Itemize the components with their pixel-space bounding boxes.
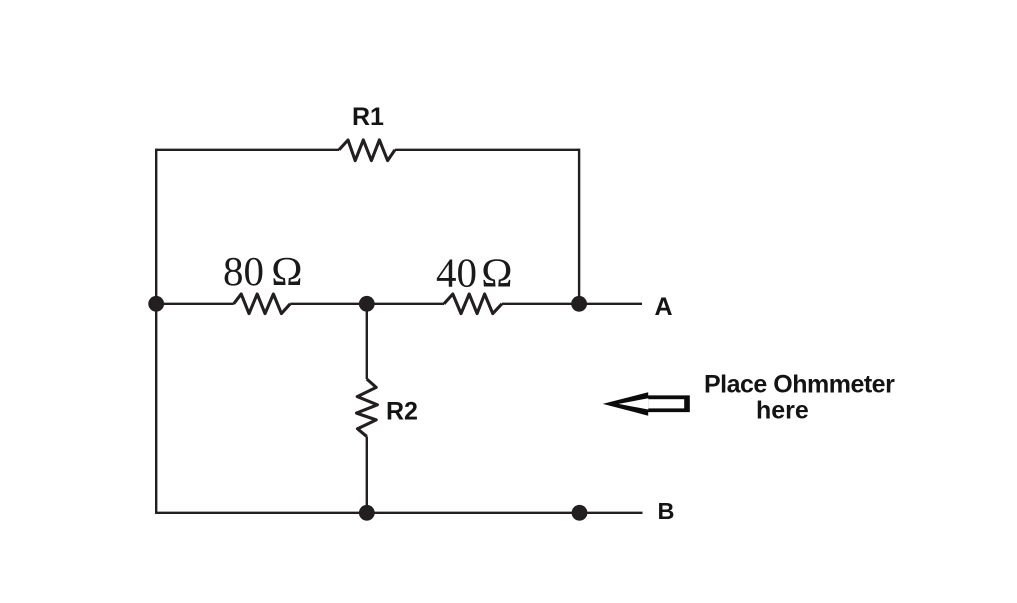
wire center branch vertical from center node down to R2 xyxy=(366,304,368,379)
resistor R2 xyxy=(357,379,378,437)
wire middle rail segment left node to 80 ohm resistor xyxy=(156,303,234,305)
junction right node on middle rail xyxy=(571,296,587,312)
svg-text:Ω: Ω xyxy=(481,250,512,296)
resistor R1 xyxy=(339,140,395,161)
svg-text:Place Ohmmeter: Place Ohmmeter xyxy=(704,371,895,399)
resistor 40 ohms xyxy=(444,294,502,314)
svg-text:B: B xyxy=(658,498,675,524)
junction bottom center node on bottom rail xyxy=(359,505,375,521)
resistor 80 ohms xyxy=(234,294,291,314)
svg-text:Ω: Ω xyxy=(271,248,302,294)
svg-text:40: 40 xyxy=(436,250,477,296)
svg-text:R1: R1 xyxy=(352,103,384,131)
block arrow white inner wedge of head xyxy=(619,398,649,409)
svg-text:80: 80 xyxy=(223,248,264,294)
wire center branch vertical from R2 down to bottom rail xyxy=(366,437,368,513)
svg-text:A: A xyxy=(655,293,673,321)
wire right rail vertical xyxy=(578,149,580,304)
wire top rail right of R1 xyxy=(395,149,579,151)
block arrow white inner slot of shaft xyxy=(648,399,684,408)
junction center node on middle rail xyxy=(359,296,375,312)
wire middle rail segment 80 ohm resistor to center node to 40 ohm resistor xyxy=(290,303,444,305)
junction left node on middle rail xyxy=(148,296,164,312)
svg-text:here: here xyxy=(756,397,809,425)
svg-text:R2: R2 xyxy=(386,398,418,426)
wire top rail left of R1 xyxy=(156,149,339,151)
wire left rail vertical xyxy=(155,149,157,514)
wire bottom rail from left corner to terminal B xyxy=(156,512,642,514)
junction bottom right node near terminal B xyxy=(572,505,588,521)
wire middle rail segment 40 ohm resistor to terminal A xyxy=(502,303,642,305)
block arrow pointing left toward terminals (black silhouette) xyxy=(603,392,690,415)
